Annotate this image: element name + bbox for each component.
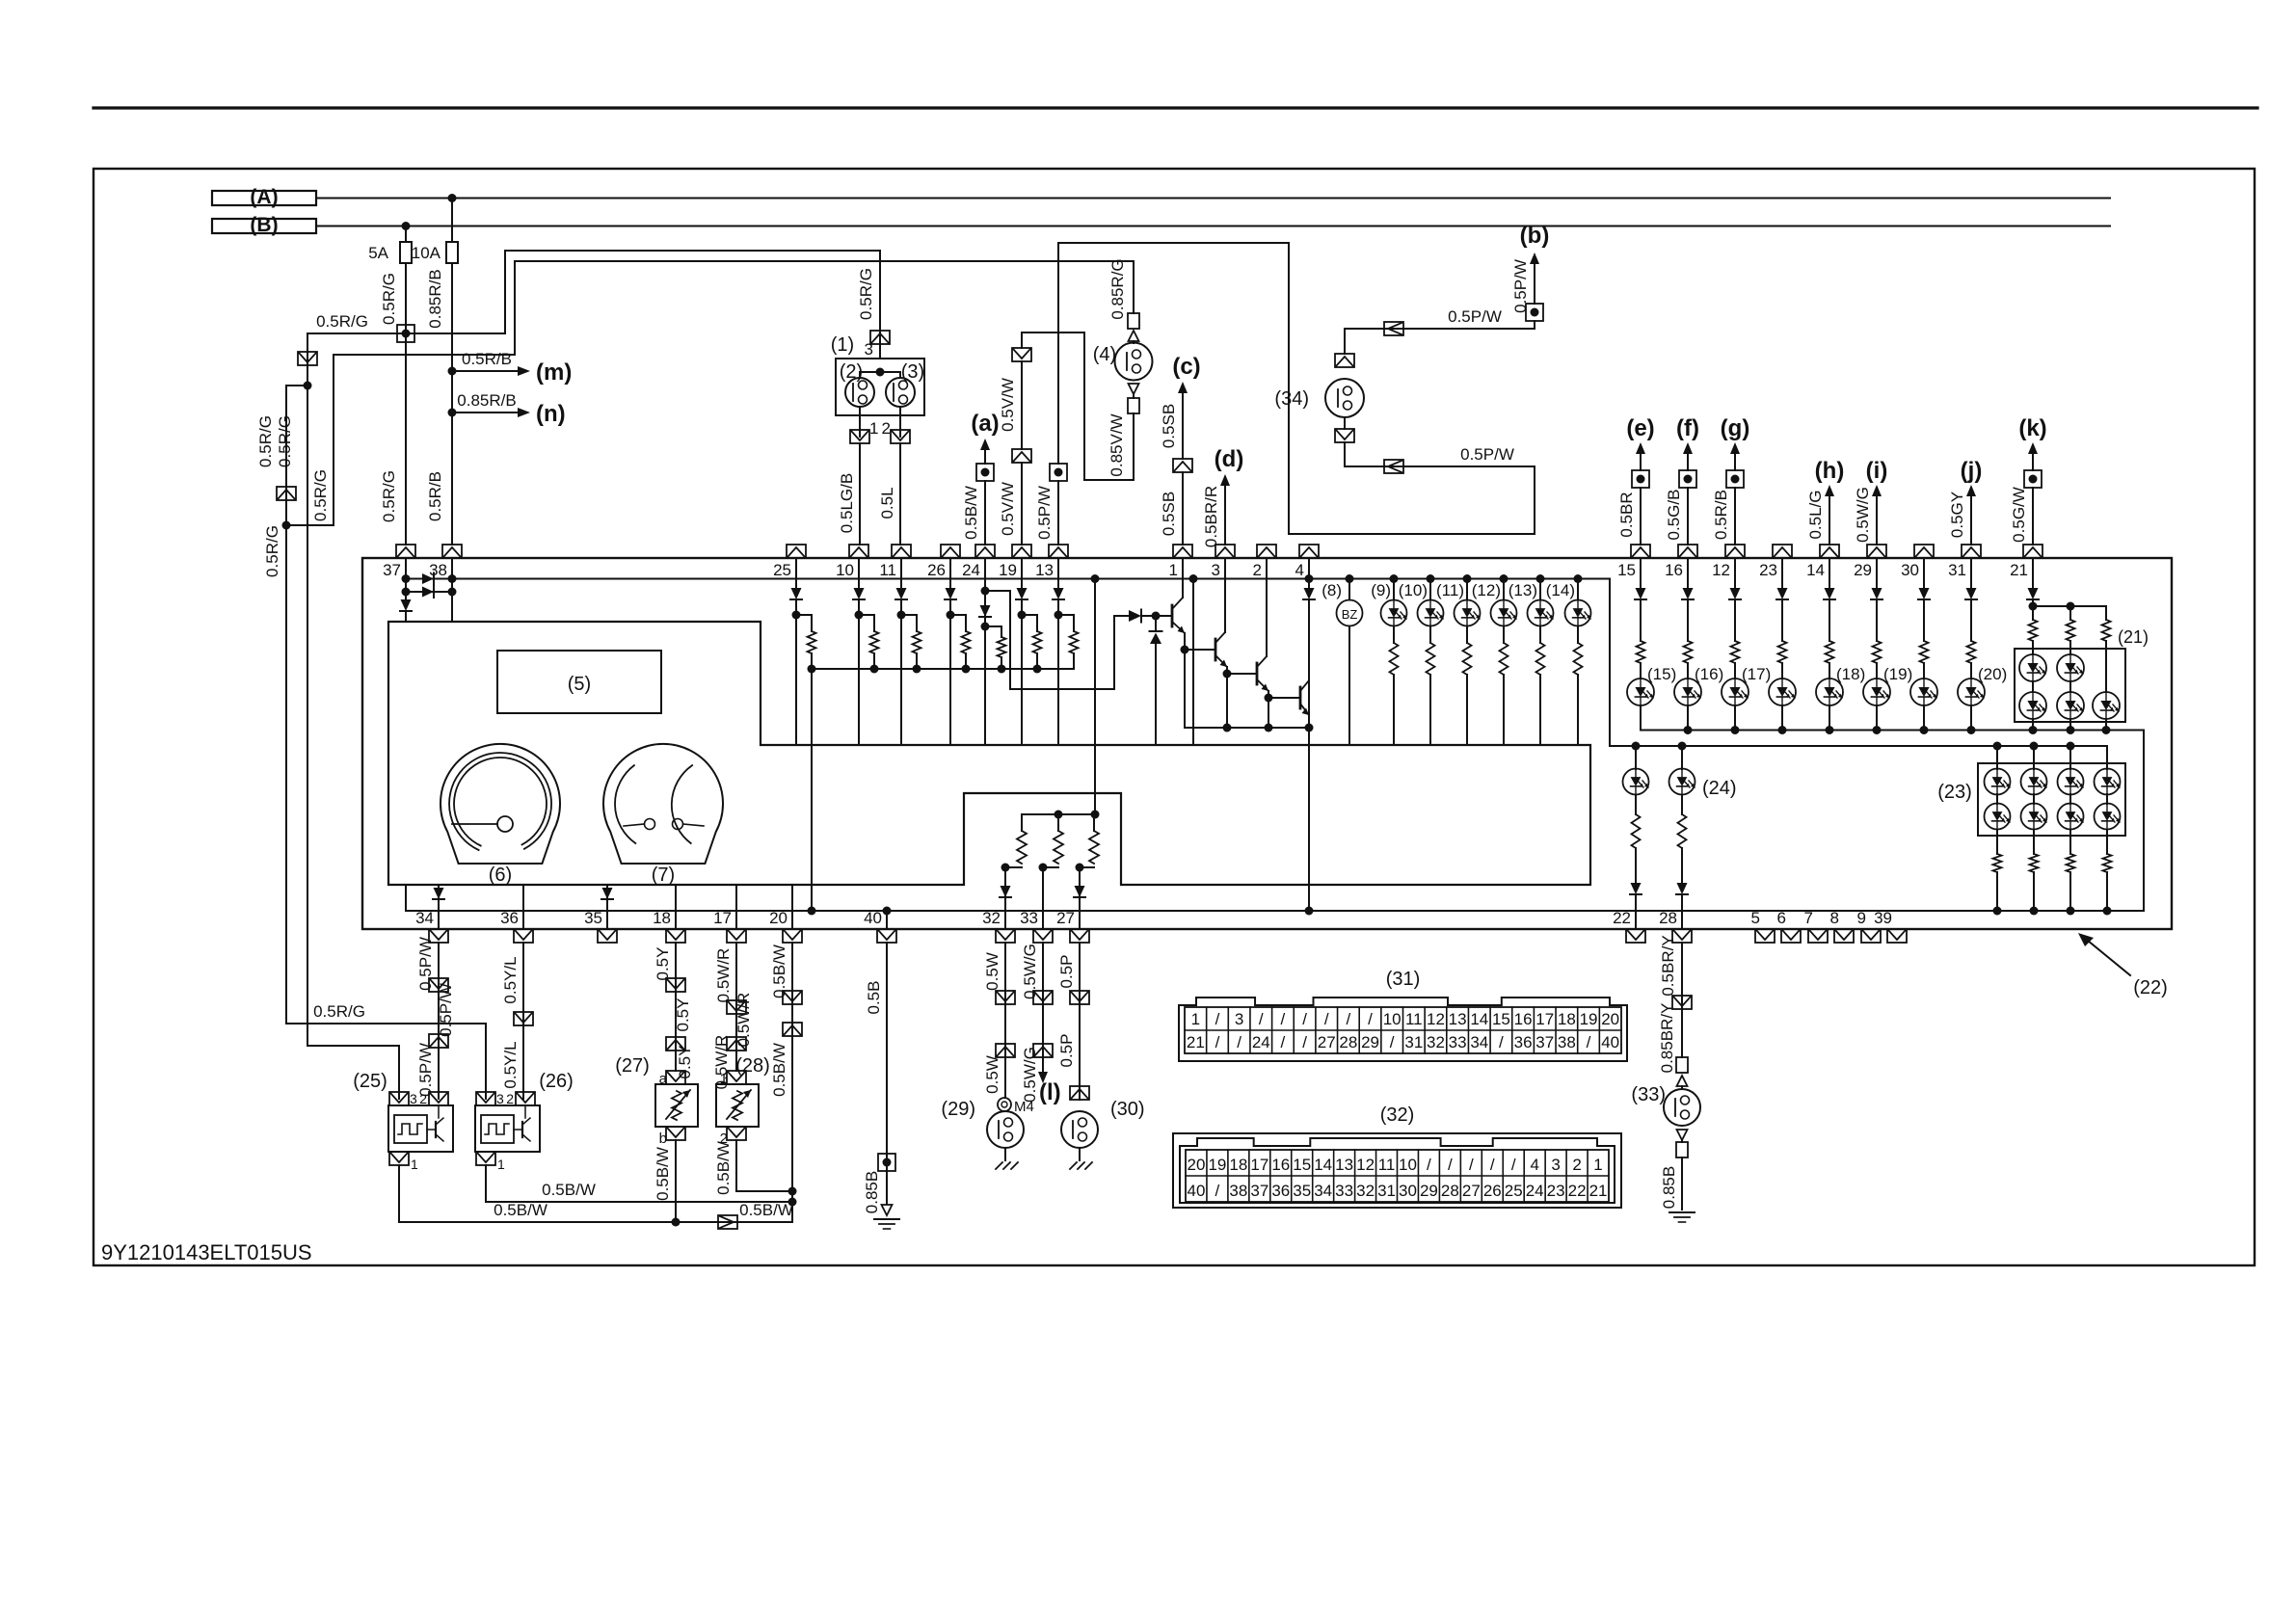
svg-text:1: 1 bbox=[1593, 1156, 1602, 1174]
svg-text:11: 11 bbox=[1405, 1010, 1423, 1028]
svg-text:0.5W/R: 0.5W/R bbox=[714, 948, 733, 1003]
svg-text:0.5R/B: 0.5R/B bbox=[462, 350, 512, 368]
svg-text:1: 1 bbox=[1169, 561, 1178, 579]
svg-text:3: 3 bbox=[1551, 1156, 1560, 1174]
svg-text:21: 21 bbox=[1187, 1033, 1205, 1051]
svg-text:(20): (20) bbox=[1978, 665, 2007, 683]
svg-text:19: 19 bbox=[1580, 1010, 1598, 1028]
svg-text:36: 36 bbox=[1271, 1182, 1290, 1200]
svg-text:3: 3 bbox=[410, 1091, 417, 1106]
svg-text:0.85BR/Y: 0.85BR/Y bbox=[1658, 1003, 1676, 1074]
svg-text:0.5R/G: 0.5R/G bbox=[380, 470, 398, 522]
svg-text:/: / bbox=[1281, 1010, 1286, 1028]
svg-text:16: 16 bbox=[1514, 1010, 1533, 1028]
svg-text:12: 12 bbox=[1712, 561, 1730, 579]
svg-text:/: / bbox=[1237, 1033, 1241, 1051]
svg-text:5A: 5A bbox=[368, 244, 388, 262]
svg-text:/: / bbox=[1302, 1033, 1307, 1051]
svg-text:0.85R/G: 0.85R/G bbox=[1108, 258, 1127, 319]
svg-text:(5): (5) bbox=[568, 674, 591, 695]
svg-text:(17): (17) bbox=[1742, 665, 1771, 683]
svg-text:0.5Y/L: 0.5Y/L bbox=[501, 1041, 520, 1088]
svg-text:(32): (32) bbox=[1380, 1104, 1415, 1126]
svg-text:3: 3 bbox=[1235, 1010, 1243, 1028]
svg-text:/: / bbox=[1511, 1156, 1516, 1174]
svg-text:(33): (33) bbox=[1631, 1084, 1666, 1105]
svg-text:33: 33 bbox=[1449, 1033, 1467, 1051]
svg-text:34: 34 bbox=[1470, 1033, 1488, 1051]
svg-text:13: 13 bbox=[1449, 1010, 1467, 1028]
svg-text:26: 26 bbox=[1483, 1182, 1502, 1200]
svg-text:0.5BR: 0.5BR bbox=[1617, 492, 1636, 537]
svg-text:19: 19 bbox=[999, 561, 1017, 579]
svg-text:0.5B/W: 0.5B/W bbox=[494, 1201, 547, 1219]
svg-text:0.5G/W: 0.5G/W bbox=[2010, 487, 2028, 543]
svg-text:31: 31 bbox=[1377, 1182, 1396, 1200]
svg-text:0.5W: 0.5W bbox=[983, 1055, 1001, 1094]
svg-text:29: 29 bbox=[1361, 1033, 1379, 1051]
svg-text:40: 40 bbox=[1188, 1182, 1206, 1200]
svg-text:33: 33 bbox=[1335, 1182, 1353, 1200]
svg-text:/: / bbox=[1347, 1010, 1351, 1028]
svg-text:15: 15 bbox=[1492, 1010, 1510, 1028]
svg-text:(29): (29) bbox=[941, 1099, 975, 1120]
svg-text:34: 34 bbox=[1314, 1182, 1332, 1200]
svg-text:16: 16 bbox=[1665, 561, 1683, 579]
svg-text:/: / bbox=[1215, 1010, 1220, 1028]
svg-text:(l): (l) bbox=[1039, 1079, 1061, 1105]
svg-text:(1): (1) bbox=[831, 334, 854, 356]
svg-text:38: 38 bbox=[1558, 1033, 1576, 1051]
svg-text:27: 27 bbox=[1318, 1033, 1336, 1051]
svg-text:23: 23 bbox=[1759, 561, 1777, 579]
svg-text:24: 24 bbox=[1252, 1033, 1270, 1051]
svg-text:0.5B/W: 0.5B/W bbox=[542, 1181, 596, 1199]
svg-text:30: 30 bbox=[1901, 561, 1919, 579]
svg-text:0.85B: 0.85B bbox=[1660, 1166, 1678, 1209]
svg-text:/: / bbox=[1490, 1156, 1495, 1174]
svg-text:/: / bbox=[1448, 1156, 1453, 1174]
svg-text:17: 17 bbox=[1535, 1010, 1554, 1028]
svg-text:(9): (9) bbox=[1371, 581, 1391, 599]
svg-text:3: 3 bbox=[1212, 561, 1220, 579]
svg-text:0.5W/G: 0.5W/G bbox=[1021, 1047, 1039, 1103]
svg-text:(e): (e) bbox=[1626, 415, 1654, 441]
svg-text:0.5W/G: 0.5W/G bbox=[1021, 944, 1039, 999]
svg-text:38: 38 bbox=[1229, 1182, 1247, 1200]
svg-text:/: / bbox=[1324, 1010, 1329, 1028]
svg-text:20: 20 bbox=[1188, 1156, 1206, 1174]
svg-text:10A: 10A bbox=[412, 244, 441, 262]
svg-text:0.5Y: 0.5Y bbox=[654, 947, 672, 981]
svg-text:14: 14 bbox=[1314, 1156, 1332, 1174]
svg-text:(26): (26) bbox=[539, 1071, 574, 1092]
svg-text:(34): (34) bbox=[1274, 388, 1309, 410]
svg-text:13: 13 bbox=[1035, 561, 1054, 579]
svg-text:3: 3 bbox=[496, 1091, 504, 1106]
svg-text:32: 32 bbox=[1356, 1182, 1375, 1200]
svg-text:/: / bbox=[1368, 1010, 1373, 1028]
svg-text:0.5R/G: 0.5R/G bbox=[263, 525, 281, 577]
svg-text:/: / bbox=[1499, 1033, 1504, 1051]
svg-text:14: 14 bbox=[1470, 1010, 1488, 1028]
svg-text:37: 37 bbox=[1535, 1033, 1554, 1051]
svg-text:(4): (4) bbox=[1093, 344, 1116, 365]
svg-text:0.85V/W: 0.85V/W bbox=[1108, 413, 1126, 476]
svg-text:17: 17 bbox=[1250, 1156, 1268, 1174]
svg-text:0.5P: 0.5P bbox=[1057, 1034, 1076, 1068]
svg-text:/: / bbox=[1390, 1033, 1395, 1051]
svg-text:0.5Y/L: 0.5Y/L bbox=[501, 956, 520, 1003]
svg-text:0.5R/G: 0.5R/G bbox=[276, 415, 294, 467]
svg-text:0.5P/W: 0.5P/W bbox=[437, 983, 455, 1037]
svg-text:0.5SB: 0.5SB bbox=[1160, 492, 1178, 536]
svg-text:0.5GY: 0.5GY bbox=[1948, 492, 1966, 538]
svg-text:(24): (24) bbox=[1702, 778, 1737, 799]
svg-text:(7): (7) bbox=[652, 865, 675, 886]
svg-text:(10): (10) bbox=[1399, 581, 1428, 599]
svg-text:/: / bbox=[1281, 1033, 1286, 1051]
svg-text:12: 12 bbox=[1356, 1156, 1375, 1174]
svg-text:0.5R/G: 0.5R/G bbox=[313, 1002, 365, 1021]
svg-text:(8): (8) bbox=[1322, 581, 1342, 599]
svg-text:/: / bbox=[1215, 1033, 1220, 1051]
svg-text:(m): (m) bbox=[536, 359, 572, 386]
svg-text:10: 10 bbox=[1383, 1010, 1402, 1028]
svg-text:0.5V/W: 0.5V/W bbox=[999, 378, 1017, 432]
svg-text:/: / bbox=[1587, 1033, 1591, 1051]
svg-text:36: 36 bbox=[1514, 1033, 1533, 1051]
svg-text:2: 2 bbox=[882, 419, 891, 438]
svg-text:2: 2 bbox=[1253, 561, 1262, 579]
svg-text:18: 18 bbox=[1558, 1010, 1576, 1028]
svg-text:0.5P: 0.5P bbox=[1057, 955, 1076, 989]
svg-text:(b): (b) bbox=[1520, 223, 1550, 249]
svg-text:0.5B/W: 0.5B/W bbox=[770, 945, 788, 998]
svg-text:(25): (25) bbox=[353, 1071, 387, 1092]
svg-text:(k): (k) bbox=[2018, 415, 2046, 441]
svg-text:22: 22 bbox=[1568, 1182, 1587, 1200]
svg-text:(27): (27) bbox=[615, 1055, 650, 1077]
svg-text:(16): (16) bbox=[1695, 665, 1723, 683]
svg-text:0.5B/W: 0.5B/W bbox=[739, 1201, 793, 1219]
svg-text:(22): (22) bbox=[2133, 977, 2168, 998]
svg-text:(a): (a) bbox=[971, 411, 999, 437]
svg-text:(30): (30) bbox=[1110, 1099, 1145, 1120]
svg-text:4: 4 bbox=[1530, 1156, 1538, 1174]
svg-text:(28): (28) bbox=[735, 1055, 770, 1077]
svg-text:0.5R/B: 0.5R/B bbox=[426, 471, 444, 521]
svg-text:10: 10 bbox=[836, 561, 854, 579]
svg-text:30: 30 bbox=[1399, 1182, 1417, 1200]
svg-text:0.85R/B: 0.85R/B bbox=[457, 391, 516, 410]
svg-text:0.5P/W: 0.5P/W bbox=[1460, 445, 1514, 464]
svg-text:0.5LG/B: 0.5LG/B bbox=[838, 473, 856, 533]
svg-text:(19): (19) bbox=[1883, 665, 1912, 683]
svg-text:0.5B: 0.5B bbox=[865, 981, 883, 1015]
svg-text:14: 14 bbox=[1806, 561, 1825, 579]
svg-text:0.5R/G: 0.5R/G bbox=[380, 273, 398, 325]
svg-text:(12): (12) bbox=[1472, 581, 1501, 599]
svg-text:(j): (j) bbox=[1961, 458, 1983, 484]
svg-text:0.5P/W: 0.5P/W bbox=[1035, 486, 1054, 540]
svg-text:0.5SB: 0.5SB bbox=[1160, 404, 1178, 448]
svg-text:32: 32 bbox=[1427, 1033, 1445, 1051]
svg-text:28: 28 bbox=[1339, 1033, 1357, 1051]
svg-text:BZ: BZ bbox=[1342, 607, 1358, 622]
svg-text:24: 24 bbox=[962, 561, 980, 579]
svg-text:/: / bbox=[1215, 1182, 1220, 1200]
svg-text:0.5P/W: 0.5P/W bbox=[416, 1043, 435, 1097]
svg-text:25: 25 bbox=[1505, 1182, 1523, 1200]
svg-text:15: 15 bbox=[1293, 1156, 1311, 1174]
svg-text:38: 38 bbox=[429, 561, 447, 579]
svg-text:24: 24 bbox=[1526, 1182, 1544, 1200]
svg-text:0.5R/G: 0.5R/G bbox=[311, 469, 330, 521]
svg-text:/: / bbox=[1427, 1156, 1431, 1174]
svg-text:11: 11 bbox=[879, 561, 896, 579]
svg-text:29: 29 bbox=[1854, 561, 1872, 579]
svg-text:0.5V/W: 0.5V/W bbox=[999, 482, 1017, 536]
svg-text:(23): (23) bbox=[1937, 782, 1972, 803]
svg-text:20: 20 bbox=[1601, 1010, 1619, 1028]
svg-text:0.5Y: 0.5Y bbox=[674, 998, 692, 1032]
svg-text:(i): (i) bbox=[1866, 458, 1888, 484]
svg-text:(n): (n) bbox=[536, 401, 566, 427]
svg-text:(6): (6) bbox=[489, 865, 512, 886]
svg-text:(21): (21) bbox=[2118, 627, 2149, 647]
svg-text:0.5B/W: 0.5B/W bbox=[714, 1141, 733, 1195]
svg-text:31: 31 bbox=[1404, 1033, 1423, 1051]
svg-text:0.5R/B: 0.5R/B bbox=[1712, 490, 1730, 540]
svg-text:0.5P/W: 0.5P/W bbox=[1511, 259, 1530, 313]
svg-text:0.5L/G: 0.5L/G bbox=[1806, 490, 1825, 539]
svg-text:0.85B: 0.85B bbox=[863, 1171, 881, 1213]
svg-text:(15): (15) bbox=[1647, 665, 1676, 683]
svg-text:(11): (11) bbox=[1436, 581, 1464, 599]
svg-text:18: 18 bbox=[1229, 1156, 1247, 1174]
svg-text:(h): (h) bbox=[1815, 458, 1845, 484]
svg-text:(18): (18) bbox=[1836, 665, 1865, 683]
svg-text:21: 21 bbox=[1589, 1182, 1608, 1200]
svg-text:/: / bbox=[1469, 1156, 1474, 1174]
svg-text:12: 12 bbox=[1427, 1010, 1445, 1028]
svg-text:15: 15 bbox=[1617, 561, 1636, 579]
svg-text:10: 10 bbox=[1399, 1156, 1417, 1174]
svg-text:0.5W/G: 0.5W/G bbox=[1854, 487, 1872, 543]
svg-text:1: 1 bbox=[411, 1157, 418, 1172]
svg-text:0.5BR/R: 0.5BR/R bbox=[1202, 486, 1220, 547]
svg-text:1: 1 bbox=[1191, 1010, 1200, 1028]
svg-text:0.5R/G: 0.5R/G bbox=[857, 268, 875, 320]
svg-text:4: 4 bbox=[1295, 561, 1304, 579]
svg-text:1: 1 bbox=[869, 419, 878, 438]
svg-text:37: 37 bbox=[383, 561, 401, 579]
svg-text:0.5B/W: 0.5B/W bbox=[962, 486, 980, 540]
svg-text:(14): (14) bbox=[1546, 581, 1575, 599]
svg-text:0.5R/G: 0.5R/G bbox=[316, 312, 368, 331]
svg-text:25: 25 bbox=[773, 561, 791, 579]
svg-text:0.5R/G: 0.5R/G bbox=[256, 415, 275, 467]
svg-text:9Y1210143ELT015US: 9Y1210143ELT015US bbox=[101, 1240, 312, 1264]
svg-text:(31): (31) bbox=[1386, 969, 1421, 990]
svg-text:2: 2 bbox=[419, 1091, 427, 1106]
svg-text:40: 40 bbox=[1601, 1033, 1619, 1051]
svg-text:19: 19 bbox=[1208, 1156, 1226, 1174]
svg-text:23: 23 bbox=[1547, 1182, 1565, 1200]
svg-text:2: 2 bbox=[1572, 1156, 1581, 1174]
svg-text:37: 37 bbox=[1250, 1182, 1268, 1200]
svg-text:27: 27 bbox=[1462, 1182, 1481, 1200]
svg-text:16: 16 bbox=[1271, 1156, 1290, 1174]
svg-text:(f): (f) bbox=[1676, 415, 1699, 441]
svg-text:31: 31 bbox=[1948, 561, 1966, 579]
svg-text:0.5P/W: 0.5P/W bbox=[1448, 307, 1502, 326]
svg-text:0.5BR/Y: 0.5BR/Y bbox=[1659, 935, 1677, 996]
svg-text:0.85R/B: 0.85R/B bbox=[426, 269, 444, 328]
svg-text:21: 21 bbox=[2010, 561, 2028, 579]
svg-text:0.5P/W: 0.5P/W bbox=[416, 937, 435, 991]
svg-text:/: / bbox=[1302, 1010, 1307, 1028]
svg-text:(d): (d) bbox=[1215, 446, 1244, 472]
svg-text:3: 3 bbox=[865, 340, 873, 359]
svg-text:35: 35 bbox=[1293, 1182, 1311, 1200]
svg-text:13: 13 bbox=[1335, 1156, 1353, 1174]
svg-text:0.5W: 0.5W bbox=[983, 952, 1001, 991]
svg-text:(g): (g) bbox=[1721, 415, 1750, 441]
svg-text:29: 29 bbox=[1420, 1182, 1438, 1200]
svg-text:0.5G/B: 0.5G/B bbox=[1665, 490, 1683, 541]
svg-text:/: / bbox=[1259, 1010, 1264, 1028]
svg-text:0.5B/W: 0.5B/W bbox=[654, 1147, 672, 1201]
svg-text:11: 11 bbox=[1378, 1156, 1396, 1174]
svg-text:1: 1 bbox=[497, 1157, 505, 1172]
svg-text:0.5W/R: 0.5W/R bbox=[734, 993, 753, 1048]
svg-text:28: 28 bbox=[1441, 1182, 1459, 1200]
svg-text:(13): (13) bbox=[1508, 581, 1537, 599]
svg-text:0.5B/W: 0.5B/W bbox=[770, 1043, 788, 1097]
svg-text:0.5L: 0.5L bbox=[878, 487, 896, 519]
svg-text:2: 2 bbox=[506, 1091, 514, 1106]
svg-text:26: 26 bbox=[927, 561, 946, 579]
svg-text:(c): (c) bbox=[1172, 354, 1200, 380]
